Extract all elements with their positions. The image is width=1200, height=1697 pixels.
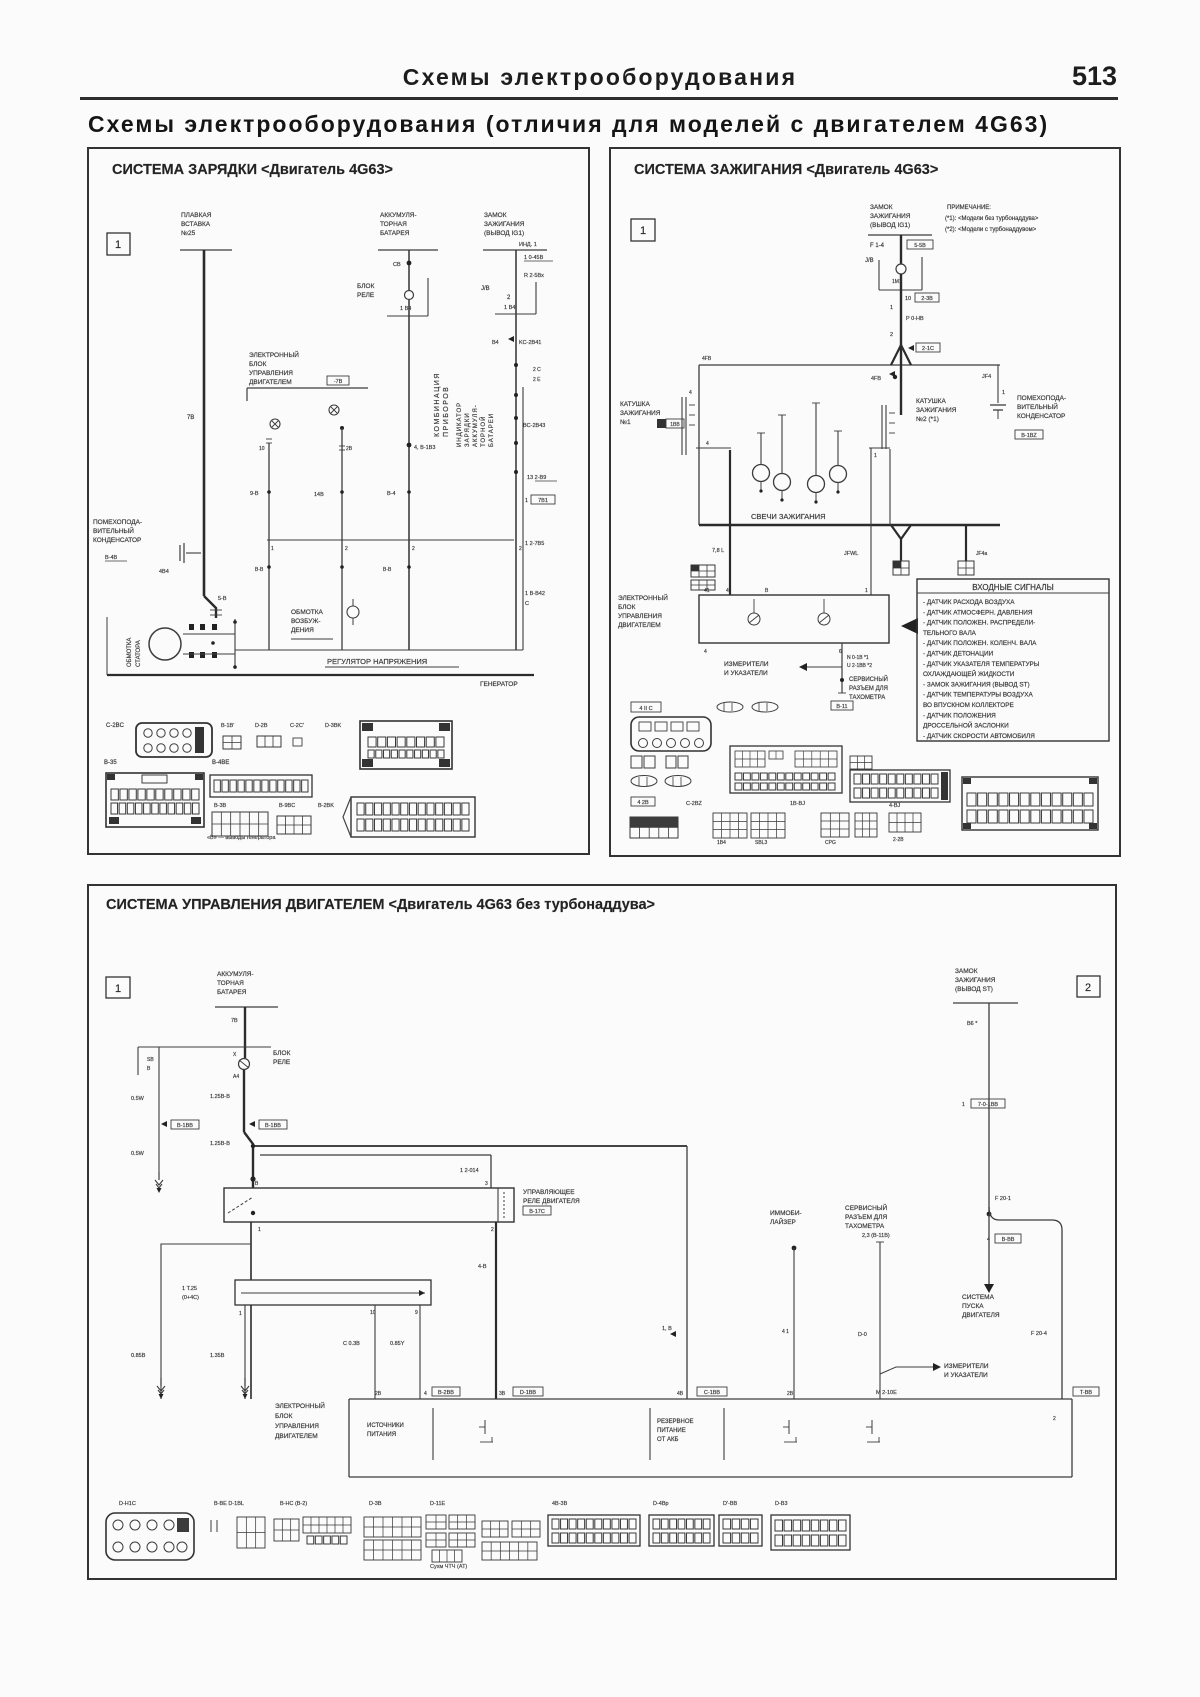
svg-text:B-4BE: B-4BE xyxy=(212,760,229,766)
svg-text:ИНДИКАТОР: ИНДИКАТОР xyxy=(457,402,463,447)
svg-text:B-2BK: B-2BK xyxy=(318,803,334,809)
svg-text:C 0.3B: C 0.3B xyxy=(343,1341,360,1347)
svg-text:4: 4 xyxy=(689,390,692,396)
svg-text:РЕЛЕ ДВИГАТЕЛЯ: РЕЛЕ ДВИГАТЕЛЯ xyxy=(523,1198,580,1205)
svg-text:7B: 7B xyxy=(231,1018,238,1024)
svg-text:D'-BB: D'-BB xyxy=(723,1501,738,1507)
svg-text:C-2C': C-2C' xyxy=(290,723,304,729)
svg-text:2B: 2B xyxy=(346,446,353,452)
svg-text:4-B: 4-B xyxy=(478,1264,487,1270)
svg-text:M 2-10E: M 2-10E xyxy=(876,1390,897,1396)
svg-text:ЗАЖИГАНИЯ: ЗАЖИГАНИЯ xyxy=(955,977,996,984)
svg-text:БАТАРЕЯ: БАТАРЕЯ xyxy=(217,989,247,996)
svg-text:ОТ АКБ: ОТ АКБ xyxy=(657,1437,678,1443)
svg-text:B-BE D-1BL: B-BE D-1BL xyxy=(214,1501,244,1507)
svg-text:KC-2B41: KC-2B41 xyxy=(519,340,541,346)
svg-text:- ДАТЧИК ДЕТОНАЦИИ: - ДАТЧИК ДЕТОНАЦИИ xyxy=(923,651,994,658)
svg-text:ТОРНОЙ: ТОРНОЙ xyxy=(479,416,487,447)
svg-text:1: 1 xyxy=(962,1102,965,1108)
svg-text:B-4: B-4 xyxy=(387,491,396,497)
svg-text:D-0: D-0 xyxy=(858,1332,867,1338)
svg-text:ЗАРЯДКИ: ЗАРЯДКИ xyxy=(465,412,471,447)
svg-text:B4: B4 xyxy=(492,340,499,346)
svg-text:ВИТЕЛЬНЫЙ: ВИТЕЛЬНЫЙ xyxy=(93,526,134,535)
svg-text:10: 10 xyxy=(905,296,911,302)
svg-text:КОНДЕНСАТОР: КОНДЕНСАТОР xyxy=(93,537,141,544)
svg-text:A4: A4 xyxy=(233,1074,239,1080)
svg-text:ДВИГАТЕЛЕМ: ДВИГАТЕЛЕМ xyxy=(249,379,292,386)
svg-text:B-4B: B-4B xyxy=(105,555,118,561)
svg-text:ИНД. 1: ИНД. 1 xyxy=(519,242,537,248)
svg-text:ПУСКА: ПУСКА xyxy=(962,1303,984,1310)
svg-text:D-11E: D-11E xyxy=(430,1501,446,1507)
svg-text:ВХОДНЫЕ СИГНАЛЫ: ВХОДНЫЕ СИГНАЛЫ xyxy=(972,583,1053,592)
svg-text:CPG: CPG xyxy=(825,840,836,846)
svg-text:- ДАТЧИК АТМОСФЕРН. ДАВЛЕНИЯ: - ДАТЧИК АТМОСФЕРН. ДАВЛЕНИЯ xyxy=(923,609,1033,616)
svg-text:JFWL: JFWL xyxy=(844,551,858,557)
svg-text:- ДАТЧИК ПОЛОЖЕНИЯ: - ДАТЧИК ПОЛОЖЕНИЯ xyxy=(923,712,996,719)
svg-text:№1: №1 xyxy=(620,419,631,426)
svg-text:1: 1 xyxy=(640,225,646,237)
svg-text:D-2B: D-2B xyxy=(255,723,268,729)
svg-text:СЕРВИСНЫЙ: СЕРВИСНЫЙ xyxy=(849,675,888,683)
svg-text:B-3B: B-3B xyxy=(214,803,227,809)
svg-text:РЕЗЕРВНОЕ: РЕЗЕРВНОЕ xyxy=(657,1419,694,1425)
svg-text:ДВИГАТЕЛЕМ: ДВИГАТЕЛЕМ xyxy=(618,622,661,629)
svg-text:2-3B: 2-3B xyxy=(921,296,933,302)
svg-text:4-BJ: 4-BJ xyxy=(889,803,901,809)
svg-text:2-2B: 2-2B xyxy=(893,837,904,843)
svg-text:СИСТЕМА ЗАЖИГАНИЯ <Двигатель 4: СИСТЕМА ЗАЖИГАНИЯ <Двигатель 4G63> xyxy=(634,162,938,178)
svg-text:2: 2 xyxy=(412,546,415,552)
svg-text:B-2BB: B-2BB xyxy=(438,1390,454,1396)
svg-text:B-B: B-B xyxy=(255,567,264,573)
svg-text:4: 4 xyxy=(726,588,729,594)
svg-text:РЕГУЛЯТОР НАПРЯЖЕНИЯ: РЕГУЛЯТОР НАПРЯЖЕНИЯ xyxy=(327,657,427,666)
svg-text:B-HC (B-2): B-HC (B-2) xyxy=(280,1501,307,1507)
svg-text:2B: 2B xyxy=(787,1391,794,1397)
svg-text:- ДАТЧИК РАСХОДА ВОЗДУХА: - ДАТЧИК РАСХОДА ВОЗДУХА xyxy=(923,599,1015,606)
svg-text:ПИТАНИЕ: ПИТАНИЕ xyxy=(657,1428,686,1434)
svg-text:4B-3B: 4B-3B xyxy=(552,1501,568,1507)
svg-text:№25: №25 xyxy=(181,230,196,237)
svg-text:СЕРВИСНЫЙ: СЕРВИСНЫЙ xyxy=(845,1203,888,1212)
svg-text:ПИТАНИЯ: ПИТАНИЯ xyxy=(367,1432,396,1438)
svg-text:(*1): <Модели без турбонаддува: (*1): <Модели без турбонаддува> xyxy=(945,216,1039,222)
svg-text:2: 2 xyxy=(345,546,348,552)
svg-text:И УКАЗАТЕЛИ: И УКАЗАТЕЛИ xyxy=(724,670,768,677)
svg-text:B-1BB: B-1BB xyxy=(177,1123,193,1129)
svg-text:КАТУШКА: КАТУШКА xyxy=(916,398,946,405)
svg-text:7B: 7B xyxy=(187,415,194,421)
svg-text:ДВИГАТЕЛЯ: ДВИГАТЕЛЯ xyxy=(962,1312,1000,1319)
svg-text:7B1: 7B1 xyxy=(538,498,548,504)
svg-text:B-1BB: B-1BB xyxy=(265,1123,281,1129)
svg-text:ЛАЙЗЕР: ЛАЙЗЕР xyxy=(770,1217,796,1226)
svg-text:ГЕНЕРАТОР: ГЕНЕРАТОР xyxy=(480,681,518,688)
svg-text:ЭЛЕКТРОННЫЙ: ЭЛЕКТРОННЫЙ xyxy=(275,1401,325,1410)
svg-text:«В» — выводы генератора: «В» — выводы генератора xyxy=(207,835,276,841)
svg-text:СИСТЕМА ЗАРЯДКИ <Двигатель 4G6: СИСТЕМА ЗАРЯДКИ <Двигатель 4G63> xyxy=(112,162,393,178)
svg-text:1: 1 xyxy=(865,588,868,594)
svg-text:3B: 3B xyxy=(499,1391,506,1397)
svg-text:P 0-HB: P 0-HB xyxy=(906,316,924,322)
svg-text:ОХЛАЖДАЮЩЕЙ ЖИДКОСТИ: ОХЛАЖДАЮЩЕЙ ЖИДКОСТИ xyxy=(923,669,1015,678)
svg-text:- ДАТЧИК ПОЛОЖЕН. РАСПРЕДЕЛИ-: - ДАТЧИК ПОЛОЖЕН. РАСПРЕДЕЛИ- xyxy=(923,620,1035,627)
svg-text:1: 1 xyxy=(115,983,121,995)
svg-text:БЛОК: БЛОК xyxy=(273,1050,291,1057)
svg-text:ПРИБОРОВ: ПРИБОРОВ xyxy=(443,386,450,437)
svg-text:РАЗЪЕМ ДЛЯ: РАЗЪЕМ ДЛЯ xyxy=(849,686,888,692)
svg-text:1: 1 xyxy=(115,239,121,251)
svg-text:БЛОК: БЛОК xyxy=(275,1413,293,1420)
svg-text:CB: CB xyxy=(393,262,401,268)
svg-text:РЕЛЕ: РЕЛЕ xyxy=(357,292,375,299)
svg-text:4 1: 4 1 xyxy=(782,1329,789,1335)
svg-text:1, B: 1, B xyxy=(662,1326,672,1332)
svg-text:ИММОБИ-: ИММОБИ- xyxy=(770,1210,802,1217)
svg-text:ТАХОМЕТРА: ТАХОМЕТРА xyxy=(849,695,885,701)
svg-text:(ВЫВОД ST): (ВЫВОД ST) xyxy=(955,986,993,993)
svg-text:БАТАРЕИ: БАТАРЕИ xyxy=(489,413,495,447)
svg-text:D-3B: D-3B xyxy=(369,1501,382,1507)
svg-text:B-9BC: B-9BC xyxy=(279,803,295,809)
svg-text:2 E: 2 E xyxy=(533,377,541,383)
svg-text:ЗАМОК: ЗАМОК xyxy=(870,204,893,211)
svg-text:КОМБИНАЦИЯ: КОМБИНАЦИЯ xyxy=(434,372,441,437)
svg-text:УПРАВЛЕНИЯ: УПРАВЛЕНИЯ xyxy=(618,613,662,620)
svg-text:B: B xyxy=(255,1181,259,1187)
svg-text:ИСТОЧНИКИ: ИСТОЧНИКИ xyxy=(367,1423,404,1429)
svg-text:D-3BK: D-3BK xyxy=(325,723,342,729)
svg-text:B6 *: B6 * xyxy=(967,1021,978,1027)
svg-text:СТАТОРА: СТАТОРА xyxy=(136,640,142,667)
svg-text:- ДАТЧИК СКОРОСТИ АВТОМОБИЛЯ: - ДАТЧИК СКОРОСТИ АВТОМОБИЛЯ xyxy=(923,733,1035,740)
svg-text:- ДАТЧИК ТЕМПЕРАТУРЫ ВОЗДУХА: - ДАТЧИК ТЕМПЕРАТУРЫ ВОЗДУХА xyxy=(923,692,1033,699)
svg-text:СВЕЧИ ЗАЖИГАНИЯ: СВЕЧИ ЗАЖИГАНИЯ xyxy=(751,512,826,521)
svg-text:JF4: JF4 xyxy=(982,374,991,380)
svg-text:2,3 (В-11В): 2,3 (В-11В) xyxy=(862,1233,890,1239)
svg-text:И УКАЗАТЕЛИ: И УКАЗАТЕЛИ xyxy=(944,1372,988,1379)
svg-text:1 B4: 1 B4 xyxy=(504,305,515,311)
svg-text:ЗАЖИГАНИЯ: ЗАЖИГАНИЯ xyxy=(484,221,525,228)
svg-text:4: 4 xyxy=(424,1391,427,1397)
svg-text:1: 1 xyxy=(874,453,877,459)
svg-text:J/B: J/B xyxy=(865,258,874,264)
svg-text:D-B3: D-B3 xyxy=(775,1501,788,1507)
svg-text:4: 4 xyxy=(987,1237,990,1243)
svg-text:ПОМЕХОПОДА-: ПОМЕХОПОДА- xyxy=(1017,395,1066,402)
svg-text:U 2-1BB *2: U 2-1BB *2 xyxy=(847,663,872,669)
svg-text:10: 10 xyxy=(259,446,265,452)
svg-text:2: 2 xyxy=(491,1227,494,1233)
svg-text:13 2-B9: 13 2-B9 xyxy=(527,475,546,481)
svg-text:КОНДЕНСАТОР: КОНДЕНСАТОР xyxy=(1017,413,1065,420)
svg-text:- ДАТЧИК УКАЗАТЕЛЯ ТЕМПЕРАТУРЫ: - ДАТЧИК УКАЗАТЕЛЯ ТЕМПЕРАТУРЫ xyxy=(923,661,1040,668)
svg-text:БЛОК: БЛОК xyxy=(249,361,267,368)
svg-text:N 0-1B *1: N 0-1B *1 xyxy=(847,655,869,661)
svg-text:2: 2 xyxy=(1053,1416,1056,1422)
svg-text:7-0-1BB: 7-0-1BB xyxy=(978,1102,999,1108)
svg-text:R 2-5Bx: R 2-5Bx xyxy=(524,273,544,279)
svg-text:1: 1 xyxy=(271,546,274,552)
svg-text:СИСТЕМА УПРАВЛЕНИЯ ДВИГАТЕЛЕМ: СИСТЕМА УПРАВЛЕНИЯ ДВИГАТЕЛЕМ <Двигатель… xyxy=(106,897,655,913)
svg-text:1B-BJ: 1B-BJ xyxy=(790,801,805,807)
svg-text:1 0-45B: 1 0-45B xyxy=(524,255,544,261)
svg-text:1.35B: 1.35B xyxy=(210,1353,225,1359)
svg-text:7,8 L: 7,8 L xyxy=(712,548,724,554)
svg-text:J/B: J/B xyxy=(481,286,490,292)
svg-text:ТАХОМЕТРА: ТАХОМЕТРА xyxy=(845,1223,885,1230)
svg-text:АККУМУЛЯ-: АККУМУЛЯ- xyxy=(217,971,254,978)
svg-text:(0+4С): (0+4С) xyxy=(182,1295,199,1301)
svg-text:41: 41 xyxy=(704,588,710,594)
svg-text:РАЗЪЕМ ДЛЯ: РАЗЪЕМ ДЛЯ xyxy=(845,1214,887,1221)
svg-text:C-2BZ: C-2BZ xyxy=(686,801,703,807)
svg-text:BC-2B43: BC-2B43 xyxy=(523,423,545,429)
svg-text:0.85Y: 0.85Y xyxy=(390,1341,405,1347)
svg-text:0.5W: 0.5W xyxy=(131,1096,145,1102)
svg-text:C-2BC: C-2BC xyxy=(106,723,125,729)
svg-text:(*2): <Модели с турбонаддувом>: (*2): <Модели с турбонаддувом> xyxy=(945,227,1037,233)
svg-text:ВИТЕЛЬНЫЙ: ВИТЕЛЬНЫЙ xyxy=(1017,402,1058,411)
svg-text:1: 1 xyxy=(1002,390,1005,396)
svg-text:1B4: 1B4 xyxy=(717,840,726,846)
svg-text:1: 1 xyxy=(525,498,528,504)
svg-text:4 II C: 4 II C xyxy=(639,706,652,712)
svg-text:БЛОК: БЛОК xyxy=(357,283,375,290)
svg-text:F 20-4: F 20-4 xyxy=(1031,1331,1047,1337)
svg-text:14B: 14B xyxy=(314,492,324,498)
svg-text:ВОЗБУЖ-: ВОЗБУЖ- xyxy=(291,618,321,625)
svg-text:D-1BB: D-1BB xyxy=(520,1390,537,1396)
svg-text:X: X xyxy=(233,1052,237,1058)
svg-text:4: 4 xyxy=(704,649,707,655)
svg-text:2-1C: 2-1C xyxy=(922,346,934,352)
svg-text:АККУМУЛЯ-: АККУМУЛЯ- xyxy=(380,212,417,219)
svg-text:F 20-1: F 20-1 xyxy=(995,1196,1011,1202)
svg-text:1 2-014: 1 2-014 xyxy=(460,1168,479,1174)
svg-text:ВСТАВКА: ВСТАВКА xyxy=(181,221,211,228)
svg-text:1: 1 xyxy=(239,1311,242,1317)
svg-text:1: 1 xyxy=(890,305,893,311)
svg-text:2 C: 2 C xyxy=(533,367,541,373)
svg-text:1 Т.25: 1 Т.25 xyxy=(182,1286,197,1292)
svg-text:B-11: B-11 xyxy=(836,704,847,710)
svg-text:(ВЫВОД IG1): (ВЫВОД IG1) xyxy=(870,222,910,229)
svg-text:ПОМЕХОПОДА-: ПОМЕХОПОДА- xyxy=(93,519,142,526)
svg-text:РЕЛЕ: РЕЛЕ xyxy=(273,1059,291,1066)
svg-text:(ВЫВОД IG1): (ВЫВОД IG1) xyxy=(484,230,524,237)
svg-text:АККУМУЛЯ-: АККУМУЛЯ- xyxy=(473,404,479,447)
svg-text:B: B xyxy=(147,1066,151,1072)
svg-text:ЭЛЕКТРОННЫЙ: ЭЛЕКТРОННЫЙ xyxy=(249,350,299,359)
svg-text:1.25B-B: 1.25B-B xyxy=(210,1141,230,1147)
svg-text:ЗАЖИГАНИЯ: ЗАЖИГАНИЯ xyxy=(870,213,911,220)
svg-text:JF4a: JF4a xyxy=(976,551,987,557)
svg-text:T-BB: T-BB xyxy=(1080,1390,1093,1396)
svg-text:0.85B: 0.85B xyxy=(131,1353,146,1359)
svg-text:3: 3 xyxy=(485,1181,488,1187)
svg-text:B-35: B-35 xyxy=(104,760,117,766)
svg-text:-7B: -7B xyxy=(334,379,343,385)
svg-text:ТОРНАЯ: ТОРНАЯ xyxy=(217,980,244,987)
svg-text:ОБМОТКА: ОБМОТКА xyxy=(291,609,324,616)
svg-text:2: 2 xyxy=(890,332,893,338)
svg-text:F 1-4: F 1-4 xyxy=(870,243,885,249)
svg-text:4B4: 4B4 xyxy=(159,569,169,575)
svg-text:ЗАМОК: ЗАМОК xyxy=(484,212,507,219)
svg-text:ДРОССЕЛЬНОЙ ЗАСЛОНКИ: ДРОССЕЛЬНОЙ ЗАСЛОНКИ xyxy=(923,721,1009,730)
svg-text:0.5W: 0.5W xyxy=(131,1151,145,1157)
svg-text:5-5B: 5-5B xyxy=(914,243,926,249)
svg-text:№2 (*1): №2 (*1) xyxy=(916,416,939,423)
svg-text:C: C xyxy=(525,601,529,607)
svg-text:SB: SB xyxy=(147,1057,154,1063)
svg-text:4B: 4B xyxy=(677,1391,684,1397)
svg-text:В-17С: В-17С xyxy=(529,1209,545,1215)
svg-text:2: 2 xyxy=(507,295,511,301)
svg-text:ВО ВПУСКНОМ КОЛЛЕКТОРЕ: ВО ВПУСКНОМ КОЛЛЕКТОРЕ xyxy=(923,702,1014,709)
svg-text:B-1BZ: B-1BZ xyxy=(1021,433,1037,439)
svg-text:БАТАРЕЯ: БАТАРЕЯ xyxy=(380,230,410,237)
svg-text:ИЗМЕРИТЕЛИ: ИЗМЕРИТЕЛИ xyxy=(724,661,769,668)
svg-text:ПЛАВКАЯ: ПЛАВКАЯ xyxy=(181,212,212,219)
svg-text:УПРАВЛЯЮЩЕЕ: УПРАВЛЯЮЩЕЕ xyxy=(523,1189,575,1196)
svg-text:1: 1 xyxy=(258,1227,261,1233)
svg-text:ДЕНИЯ: ДЕНИЯ xyxy=(291,627,314,634)
svg-text:B-BB: B-BB xyxy=(1002,1237,1015,1243)
svg-text:9-B: 9-B xyxy=(250,491,259,497)
svg-text:ИЗМЕРИТЕЛИ: ИЗМЕРИТЕЛИ xyxy=(944,1363,989,1370)
svg-text:ДВИГАТЕЛЕМ: ДВИГАТЕЛЕМ xyxy=(275,1433,318,1440)
svg-text:B: B xyxy=(765,588,769,594)
svg-text:B-B: B-B xyxy=(383,567,392,573)
svg-text:1BB: 1BB xyxy=(670,422,680,428)
svg-text:4 2B: 4 2B xyxy=(637,800,649,806)
svg-text:4, B-1B3: 4, B-1B3 xyxy=(414,445,435,451)
svg-text:ОБМОТКА: ОБМОТКА xyxy=(127,638,133,667)
svg-text:1 2-7B5: 1 2-7B5 xyxy=(525,541,544,547)
svg-text:ПРИМЕЧАНИЕ:: ПРИМЕЧАНИЕ: xyxy=(947,205,991,211)
svg-text:ЗАМОК: ЗАМОК xyxy=(955,968,978,975)
svg-text:ЗАЖИГАНИЯ: ЗАЖИГАНИЯ xyxy=(620,410,661,417)
svg-text:КАТУШКА: КАТУШКА xyxy=(620,401,650,408)
svg-text:SBL3: SBL3 xyxy=(755,840,767,846)
svg-text:2B: 2B xyxy=(375,1391,382,1397)
svg-text:2: 2 xyxy=(1085,982,1091,994)
svg-text:4FB: 4FB xyxy=(871,376,881,382)
svg-text:1 B-B42: 1 B-B42 xyxy=(525,591,545,597)
svg-text:4: 4 xyxy=(706,441,709,447)
svg-text:D-H1C: D-H1C xyxy=(119,1501,136,1507)
svg-text:ЭЛЕКТРОННЫЙ: ЭЛЕКТРОННЫЙ xyxy=(618,593,668,602)
svg-text:ТЕЛЬНОГО ВАЛА: ТЕЛЬНОГО ВАЛА xyxy=(923,630,977,637)
svg-text:B-1B': B-1B' xyxy=(221,723,234,729)
svg-text:4FB: 4FB xyxy=(702,356,712,362)
svg-text:C-1BB: C-1BB xyxy=(704,1390,721,1396)
svg-text:БЛОК: БЛОК xyxy=(618,604,636,611)
svg-text:УПРАВЛЕНИЯ: УПРАВЛЕНИЯ xyxy=(249,370,293,377)
svg-text:УПРАВЛЕНИЯ: УПРАВЛЕНИЯ xyxy=(275,1423,319,1430)
svg-text:9: 9 xyxy=(415,1310,418,1316)
svg-text:СИСТЕМА: СИСТЕМА xyxy=(962,1294,995,1301)
svg-text:Сухм ЧТЧ (АТ): Сухм ЧТЧ (АТ) xyxy=(430,1564,467,1570)
svg-text:2: 2 xyxy=(519,546,522,552)
svg-text:- ДАТЧИК ПОЛОЖЕН. КОЛЕНЧ. ВАЛА: - ДАТЧИК ПОЛОЖЕН. КОЛЕНЧ. ВАЛА xyxy=(923,640,1037,647)
svg-text:1.25B-B: 1.25B-B xyxy=(210,1094,230,1100)
svg-text:5-B: 5-B xyxy=(218,596,227,602)
svg-text:ТОРНАЯ: ТОРНАЯ xyxy=(380,221,407,228)
svg-text:- ЗАМОК ЗАЖИГАНИЯ (ВЫВОД ST): - ЗАМОК ЗАЖИГАНИЯ (ВЫВОД ST) xyxy=(923,681,1030,688)
svg-text:D-4Bp: D-4Bp xyxy=(653,1501,669,1507)
svg-text:ЗАЖИГАНИЯ: ЗАЖИГАНИЯ xyxy=(916,407,957,414)
